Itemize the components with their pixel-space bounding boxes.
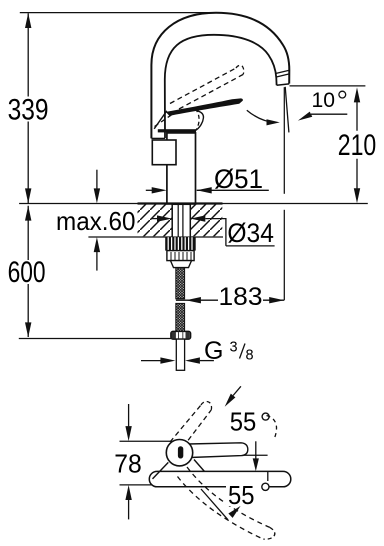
- dashed lever up tip cap: [201, 401, 212, 410]
- base cone right diagonal: [194, 460, 205, 472]
- neck bottom step: [151, 137, 165, 139]
- counter top line: [19, 203, 368, 205]
- dimension dia34: [152, 218, 158, 220]
- svg-text:max.60: max.60: [56, 206, 136, 236]
- svg-text:600: 600: [8, 256, 46, 289]
- dashed raised lever line A: [170, 68, 236, 104]
- dashed cartridge diagonal: [155, 115, 173, 127]
- svg-text:55: 55: [230, 408, 256, 436]
- lower 55 deg circle: [262, 483, 269, 490]
- blob tick: [178, 446, 183, 458]
- extension line 183 vertical: [283, 210, 285, 300]
- connection tube: [176, 339, 184, 370]
- dashed lever down position line A: [187, 467, 270, 527]
- 10 deg circle: [339, 91, 346, 98]
- solid lever blade top view: [188, 443, 248, 458]
- spout inner arc: [165, 35, 277, 138]
- extension line top (339 ref): [20, 12, 217, 14]
- dashed cartridge arc: [196, 109, 200, 131]
- svg-text:210: 210: [338, 129, 377, 162]
- dashed raised lever tip cap: [236, 65, 244, 74]
- G3/8 connector nut: [171, 331, 191, 339]
- svg-text:8: 8: [246, 348, 254, 364]
- svg-text:10: 10: [312, 89, 336, 112]
- svg-text:Ø34: Ø34: [227, 218, 274, 248]
- mounting nut knurled band: [165, 237, 196, 250]
- spout outer arc: [151, 13, 289, 139]
- svg-text:55: 55: [228, 482, 255, 510]
- ext line blob top: [120, 440, 175, 442]
- mounting nut collar: [171, 261, 192, 268]
- lever tip ext line: [244, 454, 268, 456]
- dimension max60 arrows: [96, 170, 98, 189]
- dimension 78: [128, 404, 130, 426]
- counter hatch left: [138, 204, 173, 236]
- braided hose lower segment: [176, 303, 185, 331]
- counter bottom line: [88, 236, 223, 238]
- extension line hose end level: [19, 338, 171, 340]
- 55 down arrow: [255, 441, 257, 458]
- spout outlet bottom edge: [277, 84, 290, 85]
- upper 55 deg circle: [262, 413, 269, 420]
- lower 55 leader: [201, 489, 228, 520]
- extension line outlet level: [290, 85, 366, 87]
- dimension 600 line: [27, 206, 29, 337]
- handle blob: [166, 440, 192, 466]
- 10 deg angle arc: [247, 110, 276, 122]
- braided hose upper segment: [176, 268, 185, 299]
- svg-text:183: 183: [219, 283, 263, 311]
- 10 deg stream line: [285, 87, 289, 133]
- dimension dia51: [146, 189, 152, 191]
- shank tube: [172, 204, 190, 237]
- mounting nut lower part: [167, 251, 194, 261]
- dashed raised lever line B: [179, 75, 243, 110]
- aerator band line 2: [276, 74, 289, 77]
- TOP VIEW: [120, 386, 291, 539]
- base pill: [149, 471, 290, 486]
- shank inner line right: [182, 205, 184, 237]
- svg-text:3: 3: [230, 339, 238, 355]
- body column: [167, 133, 196, 204]
- dashed lever up position line B: [183, 410, 211, 447]
- SIDE VIEW: [19, 13, 368, 371]
- upper 55 dashed hook: [267, 416, 277, 438]
- aerator band line 1: [276, 70, 289, 73]
- dimension 183: [176, 299, 284, 301]
- dimension G38 arrows: [141, 360, 161, 362]
- svg-text:G: G: [204, 337, 223, 365]
- handle lever (side view, black blade): [166, 98, 243, 115]
- cartridge left edge: [154, 111, 167, 129]
- dashed lever up position line A: [170, 405, 201, 442]
- svg-text:339: 339: [8, 94, 49, 127]
- base pill seam: [267, 471, 269, 486]
- counter hatch right: [190, 204, 222, 236]
- lower 55 text gap: [226, 481, 269, 506]
- dimension 339 line: [27, 13, 29, 203]
- counter surface thick edge: [138, 202, 223, 204]
- shank inner line left: [177, 205, 179, 237]
- dashed lever down tip cap: [263, 527, 274, 539]
- ext line base bottom: [120, 484, 187, 486]
- dashed lever down position line B: [178, 477, 264, 540]
- dimension 210 line: [356, 102, 358, 189]
- upper 55 leader: [233, 386, 241, 395]
- extension line outlet vertical: [283, 87, 285, 194]
- cartridge right bulge: [196, 111, 203, 130]
- body top bar: [158, 129, 196, 132]
- svg-text:Ø51: Ø51: [214, 164, 263, 194]
- body left box: [152, 140, 176, 165]
- svg-text:78: 78: [114, 450, 142, 478]
- 10 deg leader: [311, 113, 347, 115]
- base cone left diagonal: [153, 462, 169, 479]
